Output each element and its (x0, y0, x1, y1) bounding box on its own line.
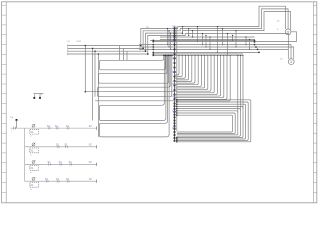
svg-text:-M: -M (280, 58, 283, 60)
cable loop W1 (100, 60, 164, 70)
wire band b (139, 48, 288, 50)
trunk heavy wire (174, 27, 176, 142)
svg-text:s: s (11, 131, 12, 133)
riser taps to loop stack (119, 46, 121, 61)
wire bus bottom (153, 54, 243, 56)
svg-text:m: m (30, 154, 32, 156)
branch drop b (92, 48, 94, 120)
svg-text:-X1: -X1 (67, 41, 71, 43)
contactor K4 with coil box (32, 177, 35, 180)
ladder rung 4 wire (25, 180, 97, 182)
wire riser to motor bus 1 (141, 6, 286, 45)
motor M1 circle (285, 29, 291, 35)
junction dots bus over risers (163, 55, 165, 57)
nested return loops (177, 100, 251, 142)
contactor K2 with coil box (32, 143, 35, 146)
frame zone tick marks (2, 4, 7, 6)
wire feeder L2 (68, 47, 143, 49)
svg-text:K1: K1 (31, 151, 35, 153)
svg-text:-M: -M (277, 21, 280, 23)
wire feeder L3 (68, 50, 146, 52)
wire supply stub (16, 120, 18, 128)
wire riser to motor bus 2 (143, 9, 288, 49)
wire through lower (95, 100, 177, 102)
junction dots band left (152, 40, 154, 42)
svg-text:W1: W1 (172, 95, 177, 99)
svg-text:X2: X2 (89, 126, 93, 128)
svg-text:K1: K1 (31, 168, 35, 170)
jumper symbol above ladder (34, 93, 44, 95)
branch drop d (97, 54, 99, 137)
wire band upper d (160, 36, 255, 38)
svg-text:m: m (30, 172, 32, 174)
drawing frame inner border verticals (5, 2, 7, 203)
branch drop c (94, 51, 96, 96)
svg-text:W1: W1 (172, 126, 177, 130)
svg-text:X2: X2 (89, 162, 93, 164)
long drop wires to nested loops (237, 55, 239, 112)
svg-text:L+: L+ (11, 116, 14, 119)
junction dots nested loop ends (176, 99, 178, 101)
svg-text:W1: W1 (172, 24, 177, 28)
ladder rung 2 wire (25, 146, 97, 148)
svg-text:W1: W1 (172, 40, 177, 44)
ladder rung 1 wire (11, 127, 97, 129)
svg-text:m: m (30, 136, 32, 138)
fan drop wires from bus to trunk (175, 55, 180, 75)
svg-text:X: X (41, 94, 43, 96)
wire feeder N (68, 53, 148, 55)
branch drop a (85, 46, 174, 92)
wire motor2 feed 2 (139, 45, 291, 59)
junction dots band right (254, 41, 256, 43)
wire motor1 bottom wrap (153, 32, 296, 42)
wire feeder L1 (68, 45, 141, 47)
cable loop W4 (100, 105, 164, 120)
cable loop W2 (99, 74, 167, 84)
svg-text:K1: K1 (31, 185, 35, 187)
terminal ticks left ends (67, 44, 69, 46)
contactor K1 with coil box (32, 124, 35, 127)
wire bus top (153, 53, 243, 55)
band track-change jogs (167, 29, 169, 45)
trunk second wire (176, 27, 178, 132)
wire riser to motor bus 3 (146, 12, 291, 52)
supply junction dot (15, 119, 17, 121)
contactor K3 with coil box (32, 160, 35, 163)
wire band c (153, 51, 259, 53)
svg-text:m: m (30, 189, 32, 191)
svg-text:3~: 3~ (277, 29, 280, 31)
cable loop risers into bus (162, 56, 164, 61)
junction dots riser bases (140, 45, 142, 47)
wire riser to motor2 bus (148, 34, 288, 59)
ladder rung 3 wire (25, 163, 97, 165)
wire band upper e (160, 38, 255, 40)
svg-text:W1: W1 (172, 110, 177, 114)
junction dots trunk (173, 27, 175, 29)
cable loop W5 (100, 123, 167, 137)
svg-text:X2: X2 (89, 179, 93, 181)
cable loop W3 (98, 87, 170, 97)
svg-text:W10: W10 (77, 41, 82, 43)
svg-text:W1: W1 (172, 82, 177, 86)
svg-text:X2: X2 (89, 145, 93, 147)
wire band a (150, 39, 255, 41)
svg-text:K1: K1 (31, 132, 35, 134)
svg-text:W1: W1 (172, 70, 177, 74)
svg-text:W1: W1 (172, 56, 177, 60)
ladder left bus (24, 128, 26, 181)
motor M2 circle (288, 59, 294, 65)
wire motor2 feed 3 (139, 47, 294, 59)
